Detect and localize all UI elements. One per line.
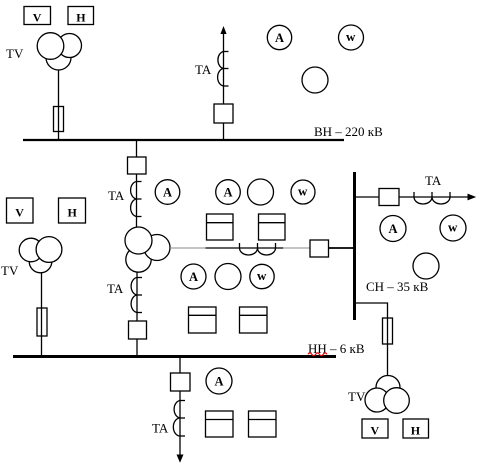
instrument circle blank row1 [248, 179, 274, 205]
label TV left-middle [1, 263, 19, 278]
three-winding transformer T1 [125, 227, 170, 272]
breaker central top [128, 157, 147, 174]
ammeter A row2 [181, 264, 206, 289]
wire VN bus to central breaker [136, 141, 138, 157]
label TA central lower [107, 281, 124, 296]
wire central breaker to NN bus [136, 339, 138, 356]
breaker SN feeder [379, 189, 399, 206]
wire bottom feeder down [179, 391, 181, 457]
svg-text:A: A [275, 31, 284, 45]
wire TV to NN bus [41, 273, 43, 355]
frequency meter H left-middle [59, 198, 86, 223]
energy meter row1 b [259, 214, 286, 240]
instrument circle blank row2 [215, 264, 241, 290]
wire transformer to SN bus (gray segment) [170, 247, 206, 249]
voltmeter V bottom-right [362, 419, 388, 438]
current transformer TA central lower [131, 278, 142, 313]
energy meter bottom b [249, 411, 277, 437]
label NN 6kV [308, 341, 365, 356]
svg-text:TV: TV [1, 263, 19, 278]
voltage transformer TV left-middle [19, 237, 62, 273]
voltmeter V top-left [24, 7, 51, 25]
fuse bottom-right [383, 318, 393, 344]
breaker on SN link [310, 240, 329, 257]
ammeter A row1 mid [216, 180, 241, 205]
svg-text:w: w [448, 219, 458, 234]
svg-text:w: w [298, 183, 308, 198]
label TV top-left [6, 46, 24, 61]
svg-text:TV: TV [348, 389, 366, 404]
current transformer TA bottom feeder [173, 401, 185, 437]
wattmeter W row1 [291, 180, 315, 204]
svg-text:A: A [215, 375, 224, 389]
ammeter A SN [380, 216, 406, 242]
svg-text:TV: TV [6, 46, 24, 61]
voltage transformer TV top-left [37, 33, 81, 70]
breaker bottom feeder [171, 373, 191, 391]
fuse left-middle [37, 308, 47, 336]
wire fuse to TV bottom-right [387, 344, 389, 378]
wire breaker to SN bus [329, 247, 354, 249]
wire TV to VN bus [58, 70, 60, 139]
svg-text:TA: TA [107, 281, 124, 296]
svg-text:w: w [257, 268, 267, 283]
svg-text:TA: TA [152, 421, 169, 436]
wire NN bus down feeder [179, 358, 181, 373]
label TV bottom-right [348, 389, 366, 404]
arrowhead right (SN feeder) [468, 194, 477, 201]
wattmeter W row2 [250, 264, 274, 288]
svg-text:TA: TA [108, 188, 125, 203]
breaker top feeder [214, 104, 233, 123]
energy meter row1 a [207, 214, 234, 240]
svg-text:w: w [346, 29, 356, 44]
label TA SN feeder [425, 173, 442, 188]
wire transformer down [136, 272, 138, 321]
current transformer TA SN feeder [414, 192, 450, 204]
arrowhead up (top feeder) [220, 26, 226, 34]
label SN 35kV [366, 279, 429, 294]
wattmeter W top [339, 25, 364, 50]
wattmeter W SN [440, 215, 466, 241]
bus VN 220kV [23, 139, 344, 141]
label VN 220kV [314, 124, 383, 139]
frequency meter H top-left [68, 7, 94, 25]
svg-text:TA: TA [195, 62, 212, 77]
spellcheck squiggle under NN [308, 353, 327, 356]
svg-text:H: H [68, 206, 78, 220]
svg-text:A: A [189, 270, 198, 284]
svg-text:ВН – 220 кВ: ВН – 220 кВ [314, 124, 383, 139]
svg-text:H: H [411, 423, 421, 437]
frequency meter H bottom-right [403, 419, 429, 438]
current transformer TA horizontal [240, 243, 276, 255]
label TA bottom feeder [152, 421, 169, 436]
ammeter A bottom [206, 368, 232, 394]
energy meter row2 a [189, 307, 217, 333]
current transformer TA central upper [131, 182, 142, 217]
svg-text:A: A [163, 186, 172, 200]
svg-text:TA: TA [425, 173, 442, 188]
energy meter row2 b [240, 307, 268, 333]
svg-text:СН – 35 кВ: СН – 35 кВ [366, 279, 429, 294]
svg-text:V: V [371, 423, 380, 437]
wire SN feeder right [356, 196, 470, 198]
ammeter A top [267, 25, 291, 49]
label TA top feeder [195, 62, 212, 77]
voltmeter V left-middle [7, 198, 34, 223]
current transformer TA top feeder [218, 52, 229, 87]
svg-text:H: H [76, 11, 86, 25]
svg-text:V: V [15, 206, 24, 220]
svg-text:A: A [224, 186, 233, 200]
fuse top-left [54, 107, 64, 132]
wire central breaker to transformer [136, 174, 138, 228]
voltage transformer TV bottom-right [365, 376, 409, 414]
wire top feeder up [223, 31, 225, 140]
bus SN 35kV [353, 172, 356, 320]
bus NN 6kV [13, 355, 336, 358]
ammeter A central row1 [155, 180, 180, 205]
instrument circle blank SN [413, 253, 439, 279]
svg-text:V: V [33, 11, 42, 25]
svg-text:A: A [389, 222, 398, 236]
arrowhead down (bottom feeder) [177, 455, 184, 463]
wire CT section [206, 247, 284, 249]
wire SN bus to bottom-right fuse [356, 303, 388, 318]
breaker central bottom [129, 321, 147, 339]
wire CT to breaker (gray segment) [283, 247, 310, 249]
instrument circle blank top [302, 67, 328, 93]
label TA central upper [108, 188, 125, 203]
energy meter bottom a [206, 411, 234, 437]
